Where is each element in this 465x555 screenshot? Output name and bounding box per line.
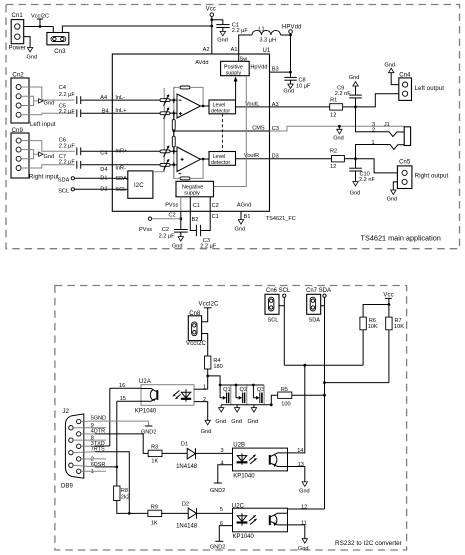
node tick InL+ [173,110,175,116]
wire Cn2 pin1 to C4 [21,87,75,100]
node VoutR junction [354,157,357,160]
wire J1 tip 2 [356,107,405,137]
positive supply block [221,61,250,76]
svg-text:Power: Power [9,45,27,51]
svg-text:13: 13 [298,462,304,468]
svg-text:Gnd: Gnd [350,191,361,197]
svg-text:A4: A4 [100,95,107,101]
connector Cn4 [399,72,444,100]
transistor Q1 [220,385,231,405]
wire VoutR [236,158,270,160]
terminal PVss [139,217,181,233]
wire negative supply to PVss pin [180,197,182,212]
block I2C [128,171,153,198]
wire CMS to jack [270,126,405,131]
ground Cn4 (arrow up) [384,62,395,72]
capacitor C2 external [159,227,188,239]
power VccI2C top terminal [199,302,220,322]
wire negative supply to C1 pin [189,197,191,212]
capacitor C8 [284,72,311,90]
pin 14 wire [288,365,305,454]
svg-text:AGnd: AGnd [237,203,251,209]
wire Q gate bus [220,384,264,386]
wire Cn1 pin1 to VccI2C junction [24,26,54,28]
ground U2A pin2 [201,420,212,435]
wire R4 junction to U2A pin 1 [207,376,209,389]
svg-text:PVss: PVss [139,227,152,233]
svg-text:PVss: PVss [165,203,178,209]
op-amp left channel [177,94,201,118]
svg-text:Vcc: Vcc [206,7,216,13]
wire R4 junction to Q gate bus [208,376,220,385]
ground C10 [350,182,361,197]
op-amp chip U1 outline [112,54,269,211]
svg-text:Gnd: Gnd [44,154,55,160]
svg-text:1K: 1K [151,458,158,464]
wire Cn9 pin4 to C7 [21,165,75,168]
feedback resistor right [173,158,205,180]
ground C9 (arrow up) [349,75,360,86]
svg-text:Q1: Q1 [223,387,230,393]
svg-text:U2C: U2C [232,504,245,510]
svg-text:C4: C4 [100,151,107,157]
svg-text:R8: R8 [121,488,128,494]
ground marker Cn9 pins 2-3 [21,150,54,160]
pin 16 wire [110,383,141,446]
svg-text:detector: detector [211,160,230,166]
svg-text:J2: J2 [63,409,70,415]
pin 13 wire [288,462,305,482]
jumper Cn3 [47,33,69,55]
ground AGnd [235,220,246,233]
dashed border RS232 to I2C converter box [55,286,407,551]
resistor R4 [205,356,223,376]
wire SDA inside chip [112,177,128,179]
svg-text:2.2 µF: 2.2 µF [200,244,217,250]
svg-text:2: 2 [372,127,375,133]
variable resistor input InR- [112,159,177,171]
pin 7RTS [73,447,129,514]
svg-text:D2: D2 [182,501,189,507]
wire J1 tip 1 [356,145,405,159]
svg-text:Gnd: Gnd [387,197,398,203]
variable resistor input InL- [112,94,177,106]
svg-text:CMS: CMS [252,126,265,132]
svg-text:2.2 µF: 2.2 µF [59,144,76,150]
svg-text:100: 100 [281,401,290,407]
arrow level detector L to positive supply [234,77,238,101]
svg-text:VoutL: VoutL [245,101,259,107]
ground C1 [217,31,228,43]
svg-text:Q3: Q3 [257,387,264,393]
svg-text:B2: B2 [192,217,199,223]
svg-text:1N4148: 1N4148 [176,464,198,470]
pin 2 wire [194,397,208,420]
terminal SDA circle [321,294,326,509]
capacitor C5 [59,104,113,117]
svg-text:Gnd: Gnd [231,419,242,425]
svg-text:A2: A2 [203,47,210,53]
wire negative supply to positive supply [214,76,247,187]
svg-text:detector: detector [211,108,230,114]
svg-text:R1: R1 [330,98,337,104]
resistor R1 [270,98,356,119]
resistor R6 [360,317,378,365]
svg-text:C1: C1 [193,203,200,209]
resistor chain CMS to InR+ [172,130,175,153]
op-amp right channel [177,147,201,174]
wire Cn3 to Vcc rail [62,26,211,33]
svg-text:Negative: Negative [182,184,203,190]
dashed border TS4621 main application box [6,5,460,249]
wire B3 to chip HpVdd pin [270,71,291,73]
capacitor C3 external [196,211,218,249]
connector Cn5 [397,160,448,189]
svg-text:Gnd: Gnd [333,135,344,141]
svg-text:C1: C1 [212,214,219,220]
power Vcc bottom terminal [383,292,393,306]
svg-text:SCL: SCL [58,188,69,194]
terminal SCL circle [279,294,286,365]
jumper Cn7 SDA [306,288,331,323]
svg-text:Gnd: Gnd [44,101,55,107]
jumper Cn8 [186,311,207,347]
svg-text:1K: 1K [151,520,158,526]
svg-text:Cn3: Cn3 [54,49,66,55]
node VoutL junction [354,106,357,109]
svg-text:Gnd: Gnd [217,38,228,44]
svg-text:AVdd: AVdd [195,60,208,66]
svg-text:1: 1 [91,469,94,475]
svg-text:A1: A1 [231,47,238,53]
svg-text:GND2: GND2 [210,488,225,494]
wire Cn1 pin2 to ground [24,37,30,48]
ground GND2 (U2C) [210,541,225,550]
svg-text:Right input: Right input [29,174,59,180]
svg-text:4: 4 [221,461,224,467]
ground U2C pin11 [298,539,309,552]
wire I2C to volume wipers [153,88,164,172]
svg-text:R9: R9 [151,504,158,510]
svg-text:C2: C2 [169,213,176,219]
svg-text:2.2 nF: 2.2 nF [359,177,375,183]
svg-text:VccI2C: VccI2C [31,13,49,19]
svg-text:supply: supply [226,70,242,76]
pin 3TXD [81,441,110,447]
ground U2B pin13 [299,482,310,495]
svg-text:U2A: U2A [139,379,151,385]
ground marker Cn2 pins 2-3 [21,96,54,106]
block negative supply [176,181,214,197]
diode D1 [176,441,232,470]
node R9 feed junction [128,512,131,515]
wire SDA to R7 [325,382,389,384]
wire CMS inside chip [174,130,270,132]
svg-text:Gnd: Gnd [215,419,226,425]
transistor Q2 [236,385,247,405]
phototransistor U2B [270,453,288,467]
svg-text:Gnd: Gnd [298,546,309,552]
wire SCL inside chip [112,188,128,190]
wire VoutL [236,106,270,108]
svg-text:1N4148: 1N4148 [176,524,198,530]
svg-text:TS4621 main application: TS4621 main application [361,234,441,243]
resistor R5 [271,387,324,407]
node tick InR- [173,162,175,168]
svg-text:Gnd: Gnd [201,429,212,435]
wire VoutR to Cn5 [356,159,398,173]
svg-text:KP1040: KP1040 [135,408,157,414]
svg-text:180: 180 [213,364,222,370]
pin 11 wire [288,520,307,538]
feedback resistor left [173,86,205,107]
wire Q source rail [221,404,271,406]
svg-text:KP1040: KP1040 [233,474,255,480]
node B3 junction [289,71,292,74]
svg-text:12: 12 [330,113,336,119]
ground C8 [283,84,294,94]
capacitor C1 [212,20,249,34]
svg-text:Vcc: Vcc [383,292,393,298]
power HPVdd terminal [282,25,302,37]
LED U2A [172,389,191,401]
svg-text:R5: R5 [281,387,288,393]
dashed link level detectors [221,114,223,152]
ball C2 PVss wire [169,211,183,229]
resistor R2 [270,148,356,170]
svg-text:VccI2C: VccI2C [186,341,207,347]
svg-text:SDA: SDA [58,177,70,183]
svg-text:U1: U1 [263,48,271,54]
capacitor C6 [59,138,113,156]
svg-text:2.2 µF: 2.2 µF [232,28,249,34]
capacitor C9 [335,86,362,107]
svg-text:Q2: Q2 [240,387,247,393]
wire Vcc to R6 R7 [363,305,389,318]
transistor Q3 [253,385,264,405]
connector J2 DB9 [61,409,84,490]
node tick InR+ [173,148,175,154]
pin 2 [81,456,106,462]
svg-text:RS232 to I2C converter: RS232 to I2C converter [335,540,403,547]
svg-text:I2C: I2C [134,183,144,189]
pin 1 wire [194,385,208,391]
svg-text:Left output: Left output [415,86,445,92]
ground Q1 [215,405,226,425]
svg-text:Gnd: Gnd [235,226,246,232]
resistor R3 [148,445,187,465]
svg-text:Gnd: Gnd [172,243,183,249]
svg-text:Gnd: Gnd [349,75,360,81]
wire Cn4 pin1 to ground [391,73,399,85]
ground C2 [172,237,184,250]
diode D2 [176,501,232,529]
svg-text:B4: B4 [102,108,109,114]
connector Cn2 [11,73,56,129]
svg-text:Gnd: Gnd [27,55,38,61]
svg-text:10K: 10K [368,324,378,330]
svg-text:Cn6 SCL: Cn6 SCL [266,288,291,294]
svg-text:Gnd: Gnd [283,88,294,94]
svg-text:C4: C4 [59,85,66,91]
pin 5GND [81,416,149,426]
wire into Cn3 [52,27,54,33]
svg-text:2.2 µF: 2.2 µF [59,109,76,115]
wire A1 to positive supply [238,54,240,61]
node tick InL- [173,97,175,103]
wire op-amp L output to level detector [201,105,210,107]
ground Cn1 [27,48,38,61]
pin 8 [73,435,106,441]
svg-text:Cn5: Cn5 [399,160,411,166]
svg-text:supply: supply [184,191,200,197]
ground GND2 (5GND) [141,426,156,435]
svg-text:12: 12 [330,164,336,170]
svg-text:J1: J1 [384,122,390,128]
svg-text:Right output: Right output [415,173,449,179]
svg-text:KP1040: KP1040 [233,534,255,540]
svg-text:2k2: 2k2 [121,495,130,501]
capacitor C4 [59,85,113,104]
svg-text:R2: R2 [330,148,337,154]
node CMS ground junction [333,125,344,141]
jumper Cn6 SCL [265,288,291,323]
svg-text:HpVdd: HpVdd [250,64,267,70]
svg-text:10K: 10K [394,324,404,330]
wire negative supply to C2 pin [209,197,211,212]
svg-text:B3: B3 [272,66,279,72]
ground Cn5 [387,190,398,203]
svg-text:VccI2C: VccI2C [199,302,220,308]
phototransistor U2A [141,389,157,402]
svg-text:Cn7 SDA: Cn7 SDA [306,288,331,294]
inductor L1 [239,26,291,54]
phototransistor U2C [270,513,288,525]
pin 9 [73,423,106,429]
jack J1 [372,122,411,146]
svg-text:10 µF: 10 µF [296,84,311,90]
pin 6 wire [219,521,232,541]
pin 4 wire [218,461,233,484]
svg-text:Cn1: Cn1 [12,13,24,19]
svg-text:2.2 nF: 2.2 nF [335,91,351,97]
block level detector L [209,100,236,114]
pin 12 wire [288,504,325,510]
svg-text:TS4621_FC: TS4621_FC [266,216,296,222]
svg-text:DB9: DB9 [61,484,74,490]
pin 1 [81,469,106,475]
ground Q3 [248,405,259,425]
svg-text:C8: C8 [299,77,306,83]
node R4 junction [206,375,209,378]
svg-text:2.2 µF: 2.2 µF [59,160,76,166]
svg-text:SCL: SCL [268,318,279,324]
block level detector R [209,152,236,166]
svg-text:GND2: GND2 [210,544,225,550]
ball B1 AGnd wire [241,211,250,220]
resistor R9 [129,504,188,526]
wire internal bus left of op-amps [173,87,175,178]
svg-text:D1: D1 [181,441,188,447]
variable resistor input InL+ [112,107,177,119]
node SDA R5 junction [323,394,326,397]
node R5 junction [270,403,273,406]
svg-text:C2: C2 [212,203,219,209]
LED U2B [237,453,258,464]
connector Cn1 [9,13,27,51]
svg-text:3.3 µH: 3.3 µH [259,37,276,43]
svg-text:5: 5 [220,507,223,513]
wire op-amp R output to level detector [201,158,210,160]
pin 4DTR [81,429,148,454]
pin 6DSR [73,462,118,468]
wire HPVdd down to B3 node [290,35,292,72]
variable resistor input InR+ [112,145,177,157]
terminal SDA [58,176,127,184]
optocoupler U2A [135,379,194,414]
svg-text:Left input: Left input [30,122,56,128]
svg-text:3: 3 [221,448,224,454]
svg-text:D4: D4 [100,167,107,173]
connector Cn9 [11,128,59,180]
svg-text:Gnd: Gnd [299,489,310,495]
ball B2 wire [190,211,198,230]
power Vcc terminal [206,7,216,55]
wire VoutL to Cn4 [356,94,399,107]
svg-text:B1: B1 [244,214,251,220]
optocoupler U2C [232,504,288,540]
ground Q2 [231,405,242,425]
svg-text:InR-: InR- [115,165,126,171]
wire Cn9 pin1 to C6 [21,141,75,152]
resistor chain InL+ to CMS [172,112,175,131]
wire Cn2 pin4 to C5 [21,113,75,115]
wire Cn5 pin2 to ground [393,182,397,190]
svg-text:Gnd: Gnd [384,62,395,68]
ground GND2 (U2B) [210,483,225,494]
wire SCL bus [284,364,363,366]
svg-text:2.2 µF: 2.2 µF [59,92,76,98]
node VccI2C tap [31,13,49,28]
svg-text:R3: R3 [151,445,158,451]
pin 15 wire [117,396,141,467]
terminal SCL [58,187,126,195]
resistor R8 [114,467,130,514]
svg-text:D1: D1 [100,176,107,182]
optocoupler U2B [233,443,288,480]
svg-text:C2: C2 [162,227,169,233]
LED U2C [237,513,258,525]
svg-text:2.2 µF: 2.2 µF [159,233,176,239]
wire Cn8 to R4 [202,334,208,357]
capacitor C10 [349,159,375,184]
resistor R7 [386,317,405,383]
capacitor C7 [59,154,113,169]
svg-text:Gnd: Gnd [248,419,259,425]
svg-text:SDA: SDA [309,318,321,324]
svg-text:D2: D2 [100,187,107,193]
